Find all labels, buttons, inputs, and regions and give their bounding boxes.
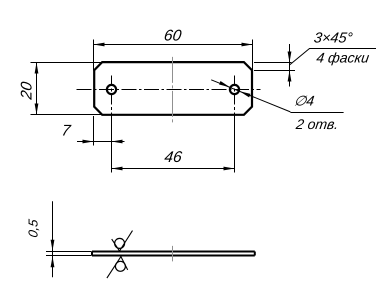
side view: plate bar (two thick lines with end caps) [92,252,255,256]
hole leader line through hole 2 with two arrows and shelf [211,80,343,113]
hole 1 (d4) [107,85,116,94]
dimension 0,5: text (rotated) [26,218,41,239]
svg-text:60: 60 [163,28,183,45]
dimension 60: extension lines [94,40,253,71]
dimension 7: dimension line with outside arrows [77,140,125,144]
svg-text:20: 20 [19,81,36,102]
hole note text 2 otv [294,116,339,132]
horizontal centerline through holes [77,89,261,91]
dimension 7: extension line from plate edge [93,116,95,146]
svg-text:4 фаски: 4 фаски [315,50,370,66]
rivet symbol: lower V branches [107,257,128,279]
chamfer note text 3x45 [313,31,354,47]
svg-text:46: 46 [163,149,183,166]
chamfer dimension: extension lines right of plate [254,63,295,71]
hole note text d4 [293,93,315,109]
rivet symbol: upper V branches [112,231,133,251]
dimension 20: extension lines [31,63,104,115]
side view: centerline tick (gray) [172,246,174,262]
dimension 60: dimension line with arrows [94,43,253,47]
chamfer leader line and shelf [290,49,377,66]
svg-text:0,5: 0,5 [26,218,41,239]
dimension 0,5: vertical line with outside arrows [51,201,55,277]
rivet symbol: upper circle [115,238,125,248]
svg-text:3×45°: 3×45° [313,31,354,47]
chamfer dimension: vertical line with outside arrows [288,44,292,87]
hole 2 centerline vertical [234,76,236,173]
dimension 20: text (rotated) [19,81,36,102]
vertical centerline of plate (gray) [172,57,174,123]
dimension 60: text [163,28,183,45]
dimension 7: text [60,122,72,139]
svg-text:∅4: ∅4 [293,93,315,109]
dimension 46: dimension line with arrows [112,167,235,171]
svg-text:2 отв.: 2 отв. [294,116,339,132]
dimension 46: text [163,149,183,166]
plate outline (top view, chamfered corners) [94,62,252,115]
dimension 20: dimension line with arrows [35,63,39,115]
rivet symbol: lower circle [115,261,125,271]
chamfer note text 4 faski [315,50,370,66]
dimension 0,5: extension lines [46,252,92,256]
hole 1 centerline vertical [111,76,113,173]
hole 2 (d4) [230,85,239,94]
